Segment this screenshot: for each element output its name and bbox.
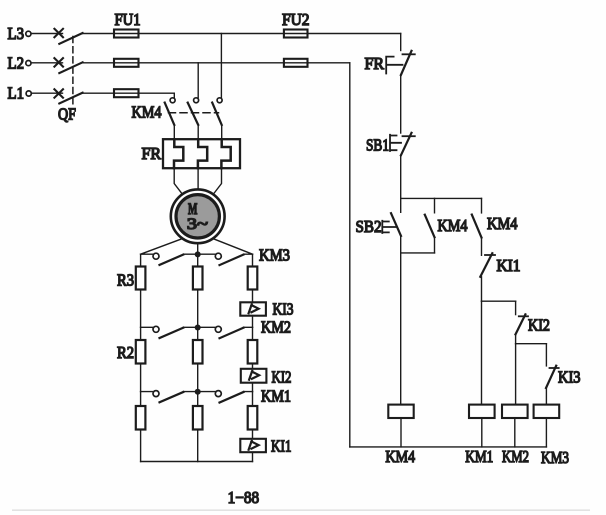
current relay contact KI1 (NC) bbox=[480, 253, 520, 277]
contactor KM3 bypass contacts row bbox=[141, 246, 290, 266]
wire L1 line bbox=[32, 92, 175, 94]
wire KI2 contact down bbox=[515, 334, 517, 343]
svg-text:KM4: KM4 bbox=[385, 447, 415, 466]
node L2 terminal bbox=[8, 53, 32, 72]
svg-text:SB2: SB2 bbox=[356, 217, 382, 236]
wire drop from L1 to KM4 pole 1 bbox=[173, 93, 175, 98]
resistor bank R3 row bbox=[117, 254, 257, 289]
svg-text:FU2: FU2 bbox=[282, 10, 310, 29]
svg-text:KI1: KI1 bbox=[271, 437, 292, 456]
resistor bank R2 row bbox=[117, 327, 257, 363]
svg-text:FR: FR bbox=[142, 144, 162, 163]
motor M 3~ bbox=[171, 189, 225, 243]
svg-text:KM3: KM3 bbox=[259, 246, 290, 265]
svg-text:KM2: KM2 bbox=[502, 447, 529, 466]
contactor KM1 contacts row bbox=[141, 387, 291, 406]
wire branch to KI3 bbox=[516, 343, 547, 345]
wire FR to SB1 bbox=[400, 75, 402, 133]
svg-text:1−88: 1−88 bbox=[228, 488, 260, 507]
svg-text:KM4: KM4 bbox=[132, 103, 162, 122]
fuse FU1 (three poles) bbox=[114, 10, 141, 97]
svg-text:KI3: KI3 bbox=[273, 300, 294, 319]
pushbutton SB1 (NC stop) bbox=[366, 133, 415, 156]
svg-text:KI1: KI1 bbox=[497, 256, 521, 275]
contactor KM4 aux contact (right branch) bbox=[472, 198, 518, 255]
wire branch to KI2 bbox=[482, 300, 516, 302]
wire to KM1 coil bbox=[481, 301, 483, 404]
contactor coil KM4 bbox=[385, 405, 415, 466]
wire R3 row to KM2 row bbox=[141, 290, 253, 328]
wire FR to motor bbox=[174, 168, 221, 194]
wire KM4 coil to rail bbox=[400, 418, 402, 447]
svg-text:R3: R3 bbox=[117, 271, 134, 290]
svg-text:KM4: KM4 bbox=[438, 216, 468, 235]
fuse FU2 (two poles) bbox=[282, 10, 310, 67]
svg-text:3~: 3~ bbox=[187, 216, 208, 233]
contactor KM4 main contacts bbox=[132, 98, 223, 125]
wire to KM4 coil bbox=[400, 253, 402, 405]
wire SB1 to branch bbox=[400, 155, 402, 198]
current relay contact KI2 (NC) bbox=[516, 301, 551, 334]
wire KI2 to KM1 row bbox=[252, 383, 254, 392]
wire KM3 coil to rail bbox=[545, 418, 547, 447]
svg-text:QF: QF bbox=[58, 105, 76, 124]
svg-text:KM3: KM3 bbox=[541, 448, 569, 467]
node L1 terminal bbox=[8, 84, 32, 103]
contactor KM4 self-latch contact bbox=[425, 198, 468, 253]
svg-text:KM1: KM1 bbox=[465, 447, 493, 466]
thermal overload relay FR heater box bbox=[142, 139, 241, 168]
contactor coil KM2 bbox=[502, 405, 529, 466]
contactor coil KM1 bbox=[465, 405, 494, 466]
resistor bank R1 row bbox=[136, 392, 257, 430]
wire KI3 to KM2 row bbox=[252, 316, 254, 328]
wire L3 line bbox=[31, 33, 401, 35]
wire R1 row down bbox=[141, 430, 253, 462]
wire rotor bottom rail bbox=[141, 461, 253, 463]
scan artifact smudge bbox=[12, 509, 590, 511]
wire KM4 to FR bbox=[174, 125, 221, 139]
wire control return from L2 bbox=[349, 63, 351, 447]
wire control feed from L3 bbox=[400, 34, 402, 51]
svg-text:KI3: KI3 bbox=[558, 368, 581, 387]
svg-text:R2: R2 bbox=[117, 343, 134, 362]
wire R2 row to KM1 row bbox=[141, 364, 253, 392]
wire branch line bbox=[401, 197, 482, 199]
svg-text:L1: L1 bbox=[8, 84, 25, 103]
svg-text:KI2: KI2 bbox=[528, 316, 550, 335]
wire KM1 coil to rail bbox=[481, 418, 483, 447]
svg-text:KM4: KM4 bbox=[487, 214, 518, 233]
wire KI1 to bottom rail bbox=[252, 452, 254, 461]
wire control bottom rail bbox=[350, 446, 547, 448]
wire drop from L3 to KM4 pole 3 bbox=[220, 34, 222, 98]
svg-text:FR: FR bbox=[365, 54, 385, 73]
wire motor to rails bbox=[141, 239, 253, 255]
wire KI1 contact down bbox=[481, 277, 483, 301]
svg-text:FU1: FU1 bbox=[115, 10, 141, 29]
svg-text:SB1: SB1 bbox=[366, 136, 389, 155]
current relay coil KI1 bbox=[240, 437, 291, 456]
wire to KM2 coil bbox=[515, 344, 517, 405]
contactor coil KM3 bbox=[534, 405, 569, 467]
svg-text:L3: L3 bbox=[8, 24, 25, 43]
wire SB2 latch join bbox=[401, 236, 435, 253]
wire L2 line bbox=[31, 62, 350, 64]
thermal relay contact FR (NC) bbox=[365, 51, 415, 75]
node L3 terminal bbox=[8, 24, 32, 43]
svg-text:L2: L2 bbox=[8, 53, 25, 72]
wire KM2 coil to rail bbox=[514, 418, 516, 447]
svg-text:KM1: KM1 bbox=[261, 387, 291, 406]
pushbutton SB2 (NO start) bbox=[356, 198, 402, 236]
svg-text:KI2: KI2 bbox=[272, 368, 292, 387]
contactor KM2 contacts row bbox=[141, 318, 291, 339]
wire drop from L2 to KM4 pole 2 bbox=[197, 63, 199, 98]
breaker QF bbox=[54, 29, 82, 124]
wire KI3 contact down bbox=[545, 388, 547, 405]
current relay contact KI3 (NC) bbox=[546, 344, 581, 388]
current relay coil KI3 bbox=[240, 300, 293, 319]
svg-text:KM2: KM2 bbox=[261, 318, 291, 337]
current relay coil KI2 bbox=[241, 368, 292, 387]
